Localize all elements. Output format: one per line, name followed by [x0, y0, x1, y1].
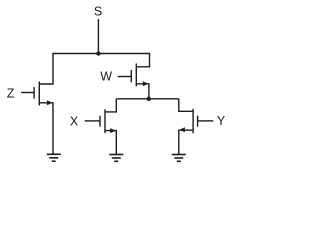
svg-text:X: X	[70, 114, 79, 128]
svg-text:S: S	[94, 5, 102, 19]
svg-text:Z: Z	[7, 87, 15, 101]
svg-text:Y: Y	[217, 114, 226, 128]
svg-text:W: W	[100, 69, 112, 83]
